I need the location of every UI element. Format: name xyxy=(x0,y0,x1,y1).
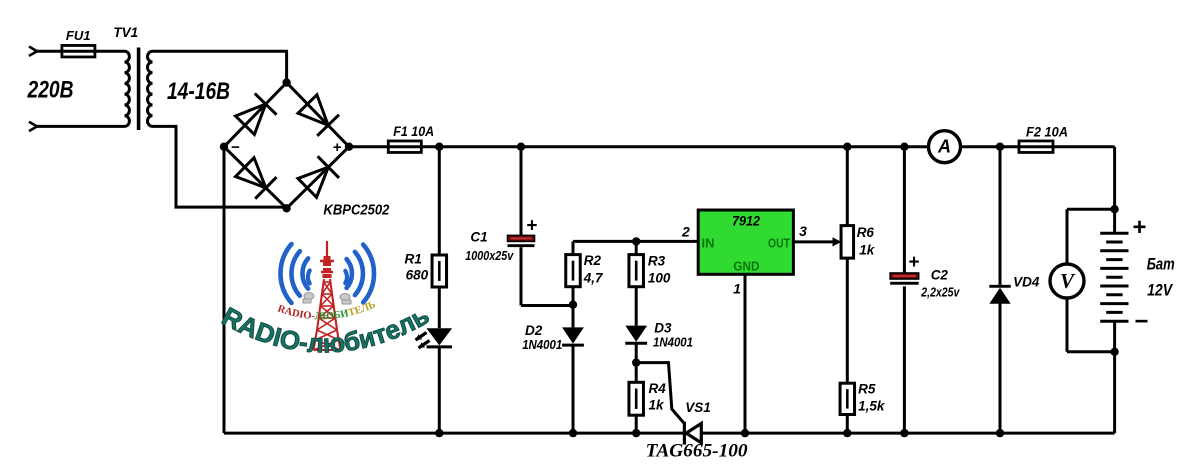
svg-text:2,2x25v: 2,2x25v xyxy=(920,284,959,299)
svg-text:R2: R2 xyxy=(584,253,602,268)
svg-text:V: V xyxy=(1060,269,1076,293)
svg-text:100: 100 xyxy=(648,271,671,286)
svg-text:R5: R5 xyxy=(858,381,876,396)
svg-text:+: + xyxy=(526,216,537,237)
svg-text:TAG665-100: TAG665-100 xyxy=(646,442,748,462)
svg-text:2: 2 xyxy=(681,224,690,240)
svg-text:C1: C1 xyxy=(470,230,487,245)
svg-text:TV1: TV1 xyxy=(113,25,138,40)
svg-text:GND: GND xyxy=(733,259,759,274)
svg-text:−: − xyxy=(231,139,240,156)
svg-text:D3: D3 xyxy=(654,321,672,336)
svg-text:+: + xyxy=(908,252,919,273)
svg-text:OUT: OUT xyxy=(768,236,790,251)
svg-text:1000x25v: 1000x25v xyxy=(465,248,514,263)
svg-text:R4: R4 xyxy=(649,381,667,396)
svg-text:1: 1 xyxy=(733,281,741,297)
svg-text:14-16В: 14-16В xyxy=(167,78,230,105)
svg-text:D2: D2 xyxy=(525,323,543,338)
svg-text:7912: 7912 xyxy=(732,213,760,229)
svg-text:1k: 1k xyxy=(859,243,876,258)
svg-text:R1: R1 xyxy=(405,252,422,267)
svg-text:VD4: VD4 xyxy=(1013,275,1040,290)
svg-text:1N4001: 1N4001 xyxy=(522,337,562,352)
svg-text:+: + xyxy=(333,139,342,156)
svg-text:−: − xyxy=(1134,308,1148,335)
svg-text:12V: 12V xyxy=(1147,282,1174,300)
svg-text:R3: R3 xyxy=(648,254,666,269)
svg-text:1k: 1k xyxy=(649,398,666,413)
svg-text:VS1: VS1 xyxy=(685,400,711,415)
svg-text:Бат: Бат xyxy=(1147,256,1175,274)
svg-text:220В: 220В xyxy=(27,77,74,104)
svg-text:3: 3 xyxy=(799,223,807,239)
svg-text:F1 10A: F1 10A xyxy=(393,124,434,139)
svg-text:4,7: 4,7 xyxy=(583,271,604,286)
svg-text:KBPC2502: KBPC2502 xyxy=(323,203,389,219)
svg-text:+: + xyxy=(1132,214,1146,241)
svg-text:FU1: FU1 xyxy=(66,28,91,43)
svg-text:1N4001: 1N4001 xyxy=(653,335,693,350)
svg-text:IN: IN xyxy=(702,236,715,251)
svg-text:1,5k: 1,5k xyxy=(858,399,886,414)
svg-text:A: A xyxy=(937,137,951,157)
svg-text:F2 10A: F2 10A xyxy=(1026,125,1068,140)
svg-text:680: 680 xyxy=(406,268,429,283)
svg-text:R6: R6 xyxy=(857,225,875,240)
svg-text:C2: C2 xyxy=(931,267,949,282)
